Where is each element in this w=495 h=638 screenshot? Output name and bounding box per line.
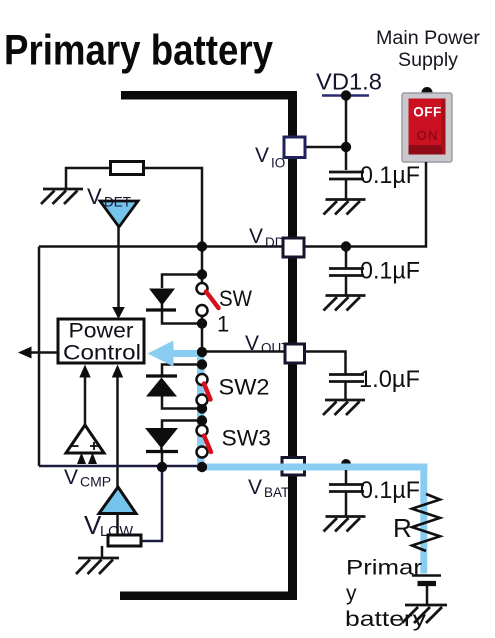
main power switch	[402, 93, 452, 162]
comparator VCMP	[66, 425, 104, 453]
svg-text:DD: DD	[265, 235, 285, 250]
wire VBAT net horizontal	[39, 465, 202, 468]
svg-text:Supply: Supply	[398, 50, 459, 71]
VCMP input arrows	[77, 453, 86, 465]
pin VOUT	[285, 344, 305, 363]
wire switch to VDD net	[304, 162, 426, 247]
comparator VDET	[100, 201, 138, 227]
svg-text:0.1µF: 0.1µF	[360, 258, 420, 285]
svg-text:Control: Control	[63, 341, 141, 365]
IC boundary top	[121, 91, 297, 100]
svg-text:battery: battery	[345, 608, 427, 631]
svg-text:VD1.8: VD1.8	[316, 69, 382, 95]
ground C2	[324, 296, 366, 311]
svg-text:R: R	[393, 513, 412, 543]
wire VLOW output to Power Control	[116, 377, 119, 487]
ground C1	[324, 200, 366, 215]
diode D3	[145, 428, 178, 449]
resistor RDET	[111, 162, 144, 175]
ground C3	[323, 400, 365, 415]
wire D1 bottom branch	[162, 311, 202, 324]
svg-text:SW3: SW3	[222, 426, 272, 451]
net VD1.8 underline	[322, 94, 369, 96]
ground RDET	[41, 189, 83, 204]
resistor RLOW	[108, 535, 141, 546]
svg-text:y: y	[346, 582, 357, 605]
wire column SW1 to VOUT junction	[201, 316, 204, 352]
switch SW1 lever	[206, 292, 219, 309]
svg-text:V: V	[64, 466, 78, 489]
svg-text:V: V	[248, 476, 262, 499]
node VBAT corner	[197, 462, 207, 472]
label Primary battery (cell)	[345, 557, 427, 632]
block Power Control	[58, 319, 144, 365]
IC boundary right	[288, 91, 297, 600]
capacitor C3 1.0uF	[329, 375, 364, 401]
svg-text:1.0µF: 1.0µF	[359, 366, 420, 393]
svg-text:DET: DET	[104, 195, 131, 210]
diode D2	[146, 374, 177, 377]
switch SW3 lever	[204, 436, 211, 453]
wire C4 drop	[345, 470, 348, 485]
wire D2 bottom branch	[162, 397, 202, 409]
node D2 top	[197, 359, 207, 369]
svg-text:0.1µF: 0.1µF	[360, 477, 420, 504]
switch SW1 contacts	[197, 283, 208, 294]
wire VCMP output to Power Control	[84, 377, 87, 426]
ground C4	[324, 517, 366, 532]
label Main Power Supply	[376, 28, 481, 71]
capacitor C4 0.1uF	[329, 485, 364, 517]
svg-text:V: V	[87, 184, 102, 209]
wire VDD row inside IC	[39, 245, 283, 248]
comparator VLOW	[99, 487, 136, 514]
wire RDET left to ground	[66, 168, 111, 189]
switch SW3 contacts	[197, 425, 208, 436]
ground battery	[402, 605, 447, 623]
capacitor C1 0.1uF	[329, 172, 364, 199]
svg-text:V: V	[255, 144, 269, 167]
node D3 top	[197, 415, 207, 425]
svg-text:Primary battery: Primary battery	[4, 27, 273, 75]
wire VOUT cap branch	[304, 352, 346, 375]
svg-text:1: 1	[217, 312, 229, 337]
node D2 bottom	[197, 403, 207, 413]
capacitor C2 0.1uF	[329, 269, 364, 296]
node SW1 bottom	[197, 318, 207, 328]
node SW1 top	[197, 269, 207, 279]
wire D3 bottom branch	[161, 453, 164, 467]
node VIO junction	[341, 142, 351, 152]
node VDD junction	[341, 241, 351, 251]
diode D1	[149, 289, 175, 306]
wire output arrow left	[30, 351, 58, 354]
wire VBAT bus blue	[148, 341, 428, 574]
svg-text:BAT: BAT	[264, 485, 289, 500]
svg-text:V: V	[249, 225, 263, 248]
switch SW2 lever	[204, 384, 211, 400]
node VD1.8	[341, 90, 351, 100]
svg-text:Power: Power	[69, 319, 134, 343]
pin VBAT (blue bus passes through)	[280, 458, 306, 476]
wire VOUT pin	[202, 350, 285, 353]
wire RLOW left to ground	[101, 546, 104, 558]
node column-VDD	[197, 241, 207, 251]
svg-text:Primar: Primar	[346, 557, 422, 580]
svg-text:IO: IO	[271, 156, 285, 171]
wire VD1.8 vertical	[345, 96, 348, 171]
node main power switch top	[422, 87, 433, 98]
wire VDET to Power Control with arrow	[117, 227, 120, 308]
node VOUT junction	[197, 347, 207, 357]
wire RDET right to column	[144, 168, 203, 283]
svg-text:ON: ON	[416, 128, 438, 143]
svg-text:V: V	[245, 332, 259, 355]
ground RLOW	[76, 558, 119, 574]
svg-text:SW2: SW2	[219, 375, 270, 400]
pin VDD	[283, 238, 304, 257]
svg-text:CMP: CMP	[80, 474, 111, 490]
battery plates	[412, 574, 441, 577]
wire D1 top branch	[162, 275, 202, 289]
node C4 tap under blue	[341, 459, 351, 469]
wire D3 top branch	[162, 421, 202, 429]
IC boundary bottom	[120, 592, 297, 601]
wire battery to ground	[426, 586, 429, 605]
node D3 bottom	[157, 462, 167, 472]
resistor R zigzag	[412, 494, 440, 551]
wire VLOW to divider	[116, 514, 119, 536]
svg-text:SW: SW	[219, 286, 252, 311]
wire VIO pin to net	[305, 146, 346, 149]
switch SW2 contacts	[197, 374, 208, 385]
svg-text:Main Power: Main Power	[376, 28, 481, 49]
svg-text:0.1µF: 0.1µF	[360, 162, 420, 189]
wire RLOW right to VBAT net	[141, 467, 162, 541]
svg-text:OUT: OUT	[261, 341, 290, 356]
wire VDD cap drop	[345, 247, 348, 269]
pin VIO	[284, 137, 305, 158]
wire left rail down to comparator	[38, 247, 41, 467]
wire D2 top branch	[162, 365, 202, 376]
svg-text:OFF: OFF	[413, 105, 442, 120]
